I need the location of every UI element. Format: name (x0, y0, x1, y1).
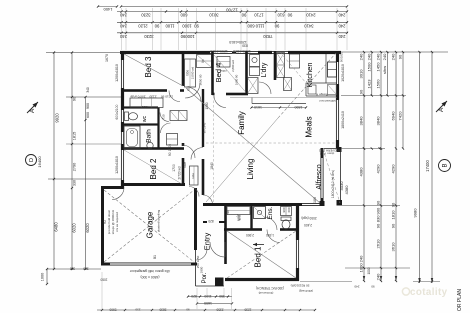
svg-text:Alfresco: Alfresco (316, 164, 323, 189)
laundry cupboard (248, 78, 259, 94)
svg-text:1020x1810: 1020x1810 (233, 49, 251, 53)
right dim extension alfresco top (341, 148, 385, 150)
svg-text:1200x1810: 1200x1810 (115, 64, 119, 82)
svg-text:180: 180 (313, 197, 317, 203)
svg-text:B: B (443, 163, 449, 167)
svg-text:6940: 6940 (391, 111, 396, 121)
right dimension column x=403.0 (402, 52, 404, 149)
svg-text:3840: 3840 (359, 116, 364, 126)
ens shower (254, 207, 266, 219)
svg-text:2610: 2610 (376, 239, 381, 249)
svg-text:90: 90 (73, 97, 77, 101)
svg-text:50 R21510(R): 50 R21510(R) (291, 284, 310, 288)
left dim extension top (46, 52, 120, 54)
section arrow A right (436, 101, 447, 112)
svg-text:240: 240 (366, 53, 371, 60)
alfresco top edge (324, 148, 341, 150)
kitchen bench dim line (251, 107, 306, 109)
svg-text:1840: 1840 (210, 162, 214, 170)
right long dimension 9980 (419, 52, 421, 283)
living/alfresco wall with stacker door (321, 148, 324, 158)
svg-text:1000: 1000 (367, 267, 371, 274)
kitchen dashed roofline (280, 52, 306, 83)
svg-text:6020: 6020 (72, 223, 77, 233)
svg-text:240: 240 (338, 34, 346, 39)
svg-text:90: 90 (274, 23, 279, 28)
left porch dim 1000 (46, 269, 48, 284)
svg-text:2,900: 2,900 (246, 233, 254, 237)
svg-text:5900: 5900 (109, 308, 116, 312)
svg-text:Bed 4: Bed 4 (214, 63, 223, 83)
front entry door arc (210, 242, 225, 257)
garage step door arc (112, 188, 124, 200)
living doorway arc (203, 195, 213, 205)
svg-text:1,540: 1,540 (266, 233, 274, 237)
bath bottom / bed2 top wall (121, 147, 184, 150)
bed1 bottom exterior wall (225, 278, 299, 281)
svg-text:240: 240 (338, 23, 346, 28)
svg-text:B1: B1 (153, 255, 157, 259)
pantry shelves column (277, 53, 285, 78)
svg-text:1815: 1815 (73, 132, 77, 140)
svg-text:3410: 3410 (304, 23, 314, 28)
garage cross diagonal 2 (104, 190, 194, 262)
kitchen sink (328, 62, 337, 77)
bed2 robe closet (190, 166, 199, 185)
svg-text:wir: wir (237, 214, 243, 221)
svg-text:robe: robe (142, 105, 149, 109)
svg-text:4290: 4290 (391, 164, 396, 174)
svg-text:90: 90 (376, 223, 381, 228)
ens bottom / bed1 top wall (224, 228, 262, 231)
left dim extension bed2 (48, 178, 121, 180)
svg-text:90: 90 (359, 89, 364, 94)
hall end door arc (185, 83, 200, 98)
svg-text:4290: 4290 (376, 164, 381, 174)
svg-text:A: A (29, 108, 36, 113)
svg-text:830 900: 830 900 (376, 207, 381, 222)
svg-text:robe: robe (183, 162, 187, 169)
wc-bath right wall (157, 108, 159, 150)
svg-text:7830: 7830 (263, 34, 273, 39)
svg-text:1230: 1230 (244, 308, 251, 312)
svg-text:3830: 3830 (159, 308, 166, 312)
right dim extension alfresco (342, 205, 400, 207)
right dimension column x=371.8 (371, 52, 373, 96)
kitchen oven tower (290, 54, 300, 68)
svg-text:3010: 3010 (359, 69, 364, 79)
svg-text:240: 240 (354, 285, 359, 289)
svg-text:90 C946: 90 C946 (203, 122, 207, 133)
svg-text:1423: 1423 (366, 79, 371, 89)
svg-text:90: 90 (186, 308, 190, 312)
svg-text:3230: 3230 (144, 34, 154, 39)
svg-text:9980: 9980 (413, 208, 418, 218)
svg-text:2,400: 2,400 (304, 223, 312, 227)
svg-text:90: 90 (287, 13, 292, 18)
svg-text:2410: 2410 (306, 13, 316, 18)
exterior wall: top (house right side original) (120, 51, 210, 54)
svg-text:45c grano infill garagedoor: 45c grano infill garagedoor (129, 269, 170, 273)
svg-text:Bed 3: Bed 3 (144, 56, 153, 77)
bed3 door arc (186, 87, 201, 102)
svg-text:90: 90 (180, 34, 185, 39)
svg-text:3230: 3230 (141, 13, 151, 18)
svg-text:1110 600: 1110 600 (247, 23, 265, 28)
svg-text:1560: 1560 (376, 79, 381, 89)
svg-text:90: 90 (371, 285, 375, 289)
garage door wall bottom (101, 263, 110, 266)
svg-text:1200x1810: 1200x1810 (115, 156, 119, 174)
porch dim 1600 (197, 303, 232, 305)
kitchen range (308, 85, 316, 94)
garage right wall (194, 188, 197, 250)
laundry washer (250, 67, 260, 76)
bed1 door arc (267, 230, 280, 243)
svg-text:3840: 3840 (376, 116, 381, 126)
garage personal door arc (196, 249, 207, 260)
svg-text:90: 90 (226, 210, 230, 214)
kitchen island bench (252, 103, 306, 105)
alfresco right edge (340, 148, 342, 204)
top dimension row 3 (117, 32, 348, 34)
svg-text:2050 (sgd): 2050 (sgd) (301, 216, 316, 220)
svg-text:900: 900 (86, 103, 90, 109)
bed3 robe (185, 59, 196, 87)
svg-text:820: 820 (191, 294, 197, 298)
svg-text:1000 90: 1000 90 (199, 74, 203, 85)
bed4 left wall (211, 51, 214, 95)
svg-text:1200x1810: 1200x1810 (229, 40, 247, 44)
svg-text:1600 90: 1600 90 (235, 74, 239, 85)
diagonal family-kitchen dashed (278, 53, 336, 118)
svg-text:(300 R/C TRENCH): (300 R/C TRENCH) (256, 286, 284, 290)
svg-text:9920: 9920 (55, 113, 60, 123)
svg-text:1700: 1700 (172, 164, 176, 172)
svg-text:240: 240 (391, 53, 396, 60)
left dimension column 3 (85, 97, 87, 269)
svg-text:2/720 wd: 2/720 wd (178, 166, 182, 179)
svg-text:s/hw: s/hw (382, 66, 387, 74)
svg-text:16400: 16400 (37, 156, 42, 168)
svg-text:1000: 1000 (185, 34, 195, 39)
svg-text:1450: 1450 (376, 62, 381, 72)
entry top doorway stubs (203, 221, 207, 223)
bath door arc (161, 123, 171, 133)
alfresco diagonal (323, 149, 340, 203)
hall door arc (191, 148, 203, 160)
svg-text:1100: 1100 (204, 294, 211, 298)
exterior wall: garage step (101, 186, 124, 189)
svg-text:Family: Family (237, 111, 246, 135)
wc toilet (125, 112, 129, 121)
svg-text:90: 90 (391, 223, 396, 228)
svg-text:1100: 1100 (165, 23, 175, 28)
top overall row 12700 (121, 6, 347, 8)
kitchen bench right arm (325, 54, 327, 83)
right dimension column x=364.0 (363, 52, 365, 281)
svg-text:Range H: Range H (316, 93, 328, 97)
svg-text:90: 90 (241, 13, 246, 18)
svg-text:90: 90 (376, 200, 381, 205)
left dim extension wc (66, 96, 121, 98)
top left 1400 dim (98, 6, 117, 8)
svg-text:730: 730 (162, 114, 166, 119)
robe closet strip (130, 98, 163, 108)
svg-text:1060: 1060 (100, 278, 107, 282)
exterior wall: left upper (Bed3/WC/Bath/Bed2) (121, 51, 124, 60)
svg-text:90: 90 (154, 23, 159, 28)
svg-text:1800x2410: 1800x2410 (341, 111, 345, 129)
svg-text:2120: 2120 (138, 23, 148, 28)
family bulkhead dashed (213, 96, 215, 203)
right dimension column x=387.4 (386, 52, 388, 96)
kitchen bulkhead line (230, 97, 337, 99)
left dimension column 2 (71, 53, 73, 270)
svg-text:Bed 2: Bed 2 (149, 158, 158, 179)
svg-text:330: 330 (73, 180, 77, 186)
svg-text:3610: 3610 (391, 242, 396, 252)
bath basin (147, 142, 153, 148)
svg-text:240: 240 (359, 53, 364, 60)
right dim extension mid (341, 95, 406, 97)
ens toilet (281, 217, 291, 221)
svg-text:7420: 7420 (398, 111, 403, 121)
family-living boundary dashed (206, 142, 336, 144)
right dim extension top (341, 51, 448, 53)
svg-text:240: 240 (338, 13, 346, 18)
bed2 door arc (182, 145, 195, 158)
hall-garage door arc (189, 187, 199, 197)
right dimension column x=396.0 (395, 52, 397, 281)
svg-text:2350: 2350 (216, 308, 223, 312)
svg-text:6480: 6480 (54, 222, 59, 232)
entry right wall (224, 204, 227, 264)
ens vanity (281, 207, 292, 216)
bath tub (124, 126, 140, 149)
svg-text:2790: 2790 (73, 163, 77, 171)
svg-text:(thickened): (thickened) (259, 291, 274, 295)
svg-text:Garage: Garage (146, 211, 155, 238)
svg-text:Meals: Meals (305, 116, 314, 137)
laundry right wall (274, 51, 277, 80)
bed1 cross diagonal 1 (227, 231, 296, 278)
svg-text:1610: 1610 (254, 105, 262, 109)
right long dim bottom ticks (413, 281, 440, 283)
svg-text:1200x1810: 1200x1810 (210, 49, 228, 53)
right dim extension bottom (345, 267, 410, 269)
top extension lines (121, 8, 123, 50)
svg-text:crs as required: crs as required (115, 212, 119, 232)
svg-text:Bath: Bath (146, 129, 153, 143)
ens door arc (264, 217, 277, 230)
svg-text:90 1000: 90 1000 (168, 144, 172, 156)
section marker D circle (26, 155, 37, 166)
svg-text:L’dry: L’dry (261, 62, 268, 77)
svg-text:robe: robe (191, 173, 195, 179)
svg-text:90: 90 (194, 23, 199, 28)
bed2 bottom wall (121, 183, 185, 186)
bed4 bottom wall (213, 93, 215, 96)
svg-text:1580: 1580 (205, 102, 209, 109)
kitchen bench bottom (306, 82, 337, 84)
bed2 right wall (182, 143, 185, 146)
svg-text:D: D (29, 158, 35, 162)
svg-text:600: 600 (287, 207, 291, 212)
svg-text:900: 900 (282, 207, 286, 212)
svg-text:610: 610 (277, 13, 285, 18)
svg-text:340: 340 (86, 87, 90, 93)
svg-text:830: 830 (242, 44, 248, 48)
left dim extension bath (66, 143, 121, 145)
svg-text:1710: 1710 (254, 13, 264, 18)
svg-text:1810: 1810 (391, 210, 396, 220)
diagonal living reverse (206, 118, 278, 202)
svg-text:wc: wc (142, 115, 148, 122)
bed1 bottom extension line (300, 281, 352, 283)
diagonal bed3-hall-living (124, 54, 183, 86)
svg-text:robe: robe (186, 70, 190, 77)
bath vanity (167, 134, 178, 146)
left dim extension garage bottom (47, 268, 101, 270)
left dimension column 9920/6480 (53, 53, 55, 270)
wc/bath divider (121, 123, 158, 125)
svg-text:lin: lin (201, 59, 205, 63)
svg-text:cotality: cotality (410, 287, 448, 298)
north arrow near bed1 (253, 244, 264, 246)
svg-text:(4800 x 300): (4800 x 300) (140, 275, 159, 279)
bottom dim row long (97, 309, 315, 311)
bed4 right / laundry left wall (245, 51, 248, 95)
svg-text:2,800 wd: 2,800 wd (231, 60, 235, 72)
svg-text:down P 12: down P 12 (319, 152, 334, 156)
svg-text:1400: 1400 (103, 7, 113, 12)
bed4 door arc (214, 96, 226, 108)
bed3 right wall (182, 51, 185, 86)
svg-text:600: 600 (86, 112, 90, 118)
hall right wall segment (202, 89, 204, 147)
svg-text:820: 820 (187, 86, 191, 91)
svg-text:1890: 1890 (295, 105, 303, 109)
right dimension column x=381.0 (380, 52, 382, 281)
svg-text:plasterb'd/ceiling: plasterb'd/ceiling (157, 210, 161, 233)
exterior wall: right upper (kitchen/meals) (336, 51, 339, 62)
svg-text:17400: 17400 (425, 160, 430, 172)
svg-text:1670: 1670 (105, 54, 109, 62)
porch extension verticals (196, 288, 198, 309)
porch outline (195, 250, 197, 286)
linen closet (170, 111, 187, 121)
wir shelves (227, 207, 250, 215)
svg-text:R2: R2 (103, 220, 107, 224)
laundry trough (250, 55, 260, 67)
fridge space (328, 85, 337, 95)
svg-text:230: 230 (135, 308, 140, 312)
bed1 cross diagonal 2 (227, 231, 296, 278)
alfresco corner posts (337, 147, 342, 152)
section marker B circle (439, 160, 451, 172)
laundry door arc (259, 82, 271, 94)
bed4 ceiling diagonal (214, 55, 246, 93)
svg-text:(2410 avg): (2410 avg) (299, 289, 313, 293)
svg-text:2,060 wd: 2,060 wd (191, 67, 195, 80)
garage bottom extension vertical (101, 272, 103, 309)
svg-text:1800x2410 (st drs): 1800x2410 (st drs) (331, 170, 335, 198)
porch dim row 820 1100 350 (188, 296, 232, 298)
pantry box 2 (284, 78, 292, 91)
svg-text:90/1810: 90/1810 (340, 52, 344, 63)
svg-text:240: 240 (376, 273, 381, 280)
hall linen (197, 55, 212, 68)
right long dimension 17400 (431, 52, 433, 283)
bed1 right exterior wall (296, 206, 299, 240)
wir right / shower wall (250, 206, 252, 230)
svg-text:1000 240: 1000 240 (359, 255, 364, 272)
svg-text:90: 90 (398, 54, 403, 59)
svg-text:240: 240 (376, 53, 381, 60)
bed4 robe (217, 57, 230, 68)
living left wall (202, 159, 205, 195)
robe lobby door arc (169, 91, 180, 102)
svg-text:4380: 4380 (344, 185, 349, 195)
robe/wc divider (121, 106, 158, 108)
svg-text:820: 820 (208, 219, 214, 223)
svg-text:Entry: Entry (203, 233, 212, 251)
svg-text:Living: Living (246, 159, 255, 180)
bed3 bottom wall (121, 89, 167, 92)
svg-text:1500: 1500 (366, 62, 371, 72)
wc door arc (160, 113, 169, 122)
svg-text:1000: 1000 (41, 273, 45, 281)
top dimension row 2 (117, 21, 348, 23)
svg-text:bulkhead over: bulkhead over (319, 99, 337, 103)
top dimension row 1 (117, 11, 348, 13)
svg-text:6020: 6020 (85, 223, 90, 233)
bed2 ceiling diagonal (124, 150, 182, 184)
garage cross diagonal 1 (104, 190, 194, 262)
living bottom wall (203, 203, 302, 206)
svg-text:1800: 1800 (200, 266, 204, 273)
svg-text:4380: 4380 (359, 167, 364, 177)
svg-text:240: 240 (382, 53, 387, 60)
svg-text:250 1250: 250 1250 (196, 255, 200, 268)
svg-text:600x2100: 600x2100 (115, 104, 119, 119)
svg-text:A: A (438, 107, 445, 112)
svg-text:1600: 1600 (204, 301, 212, 305)
exterior wall: garage left (101, 186, 104, 264)
section arrow A left (27, 102, 38, 113)
svg-text:1020x1810: 1020x1810 (341, 64, 345, 82)
svg-text:OR PLAN: OR PLAN (457, 289, 463, 311)
svg-text:3010: 3010 (209, 13, 219, 18)
